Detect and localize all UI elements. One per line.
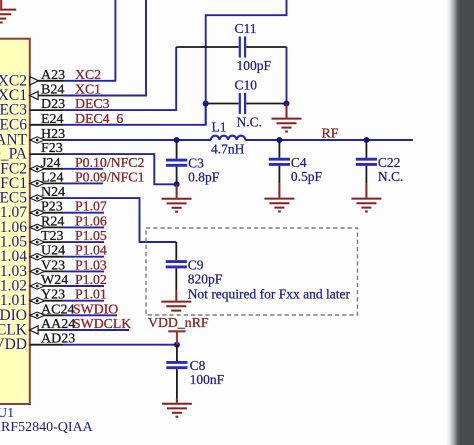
svg-text:nRF52840-QIAA: nRF52840-QIAA	[0, 420, 94, 435]
wire ANT to L1	[63, 139, 211, 141]
svg-text:100pF: 100pF	[237, 58, 272, 73]
svg-text:P0.09/NFC1: P0.09/NFC1	[75, 169, 144, 184]
svg-text:U24: U24	[41, 244, 65, 259]
svg-text:P1.06: P1.06	[75, 213, 107, 228]
wire DEC4_6 to C10 and top edge	[63, 0, 287, 125]
svg-text:C8: C8	[190, 358, 206, 373]
wire stub P0.10/NFC2	[63, 168, 103, 170]
svg-text:4.7nH: 4.7nH	[211, 142, 245, 157]
svg-text:H23: H23	[41, 127, 65, 142]
junction C3 top	[174, 137, 180, 143]
pin F23	[30, 141, 63, 156]
pin AA24 SWDCLK	[30, 316, 132, 334]
wire stub P1.07	[63, 212, 104, 214]
svg-text:VDD: VDD	[0, 336, 27, 353]
wire C11 right to C10 right	[286, 47, 288, 104]
pin A23 XC2	[30, 67, 101, 85]
pin W24 P1.02	[30, 272, 107, 289]
wire F23 to C3 bottom	[63, 154, 177, 184]
wire stub P1.01	[63, 300, 104, 302]
svg-text:SWDCLK: SWDCLK	[73, 316, 131, 331]
svg-text:T23: T23	[41, 229, 64, 244]
svg-text:0.8pF: 0.8pF	[188, 170, 220, 185]
pin B24 XC1	[30, 82, 102, 100]
svg-text:VDD_nRF: VDD_nRF	[148, 315, 209, 330]
wire stub P1.06	[63, 226, 104, 228]
junction VDD node	[174, 342, 180, 348]
ground at C8	[162, 404, 192, 417]
inductor L1	[211, 120, 245, 157]
svg-text:C3: C3	[188, 156, 204, 171]
pin E24 DEC4_6	[30, 111, 124, 127]
svg-text:Not required for Fxx and later: Not required for Fxx and later	[188, 287, 351, 302]
wire XC1	[63, 0, 146, 96]
junction C10 left	[203, 101, 209, 107]
red stem C9	[175, 290, 177, 301]
pin N24	[30, 185, 65, 201]
svg-text:DEC4_6: DEC4_6	[75, 111, 123, 126]
wire C10 left lead	[206, 103, 239, 105]
IC U1 body nRF52840-QIAA	[0, 39, 30, 404]
svg-text:P0.10/NFC2: P0.10/NFC2	[75, 155, 144, 170]
svg-text:XC2: XC2	[75, 67, 101, 82]
svg-text:P1.04: P1.04	[75, 243, 107, 258]
junction C22 top	[363, 137, 369, 143]
pin L24 P0.09/NFC1	[30, 169, 145, 186]
svg-text:C10: C10	[235, 78, 258, 93]
wire DEC5 to C9	[63, 198, 176, 242]
red stem C22	[365, 183, 367, 198]
svg-text:820pF: 820pF	[188, 271, 223, 286]
wire stub P1.05	[63, 241, 104, 243]
wire stub P1.02	[63, 285, 104, 287]
pin AD23	[30, 332, 76, 347]
svg-text:P1.03: P1.03	[75, 257, 107, 272]
capacitor C11	[176, 21, 286, 73]
pin J24 P0.10/NFC2	[30, 155, 145, 172]
IC pin names inside body	[0, 72, 28, 353]
svg-text:P1.02: P1.02	[75, 272, 107, 287]
svg-text:C9: C9	[188, 257, 204, 272]
svg-text:P1.07: P1.07	[75, 199, 107, 214]
wire VDD_nRF	[63, 344, 177, 346]
red stem C8	[176, 398, 178, 403]
wire DEC3 to C11	[63, 47, 176, 110]
svg-text:N.C.: N.C.	[378, 169, 404, 184]
ground at C3	[162, 184, 192, 211]
pin T23 P1.05	[30, 228, 107, 245]
wire XC2	[63, 0, 115, 81]
pin Y23 P1.01	[30, 287, 107, 304]
pin D23 DEC3	[30, 96, 110, 112]
power port VDD_nRF	[148, 315, 209, 345]
capacitor C8	[166, 345, 224, 398]
svg-text:N.C.: N.C.	[237, 115, 263, 130]
ground at C22	[351, 199, 381, 212]
junction C4 top	[276, 137, 282, 143]
wire stub P0.09/NFC1	[63, 182, 103, 184]
capacitor C3	[166, 140, 220, 185]
wire riser to C10 left node	[205, 104, 207, 125]
svg-text:B24: B24	[41, 83, 64, 98]
svg-text:A23: A23	[41, 68, 65, 83]
capacitor C22	[356, 140, 404, 184]
wire stub P1.03	[63, 270, 104, 272]
pin H23	[30, 127, 65, 143]
svg-text:P1.05: P1.05	[75, 228, 107, 243]
wire stub P1.04	[63, 256, 104, 258]
svg-text:0.5pF: 0.5pF	[291, 169, 323, 184]
ground at C4	[264, 199, 294, 212]
capacitor C4	[269, 140, 323, 184]
ground at C10/C11	[272, 104, 302, 132]
svg-text:U1: U1	[0, 406, 14, 421]
junction C10 right	[284, 101, 290, 107]
svg-text:C11: C11	[235, 21, 257, 36]
ground (top-left, clipped)	[0, 0, 16, 23]
svg-text:C22: C22	[378, 155, 401, 170]
svg-text:SWDIO: SWDIO	[73, 301, 118, 316]
svg-text:100nF: 100nF	[190, 372, 225, 387]
svg-text:L24: L24	[41, 170, 64, 185]
svg-text:N24: N24	[41, 185, 65, 200]
red stem C4	[278, 183, 280, 198]
capacitor C9	[166, 242, 223, 290]
pin P23 P1.07	[30, 199, 107, 216]
svg-text:E24: E24	[41, 112, 64, 127]
svg-text:Y23: Y23	[41, 288, 65, 303]
svg-text:RF: RF	[322, 125, 339, 140]
svg-text:L1: L1	[212, 120, 227, 135]
wire RF	[245, 139, 413, 141]
wire stub SWDCLK	[63, 329, 129, 331]
capacitor C10	[235, 78, 287, 130]
pin R24 P1.06	[30, 213, 107, 230]
svg-text:XC1: XC1	[75, 82, 101, 97]
svg-text:DEC3: DEC3	[75, 96, 110, 111]
svg-text:F23: F23	[41, 141, 63, 156]
svg-text:D23: D23	[41, 97, 65, 112]
ground at C9	[161, 302, 191, 311]
svg-text:R24: R24	[41, 214, 64, 229]
dashed option box	[146, 228, 358, 315]
svg-text:P23: P23	[41, 200, 63, 215]
svg-text:J24: J24	[41, 156, 60, 171]
wire stub SWDIO	[63, 314, 117, 316]
pin U24 P1.04	[30, 243, 107, 260]
pin AC24 SWDIO	[30, 301, 119, 318]
svg-text:V23: V23	[41, 258, 65, 273]
svg-text:P1.01: P1.01	[75, 287, 107, 302]
pin V23 P1.03	[30, 257, 107, 274]
svg-text:C4: C4	[291, 155, 307, 170]
junction C3 bottom	[174, 181, 180, 187]
